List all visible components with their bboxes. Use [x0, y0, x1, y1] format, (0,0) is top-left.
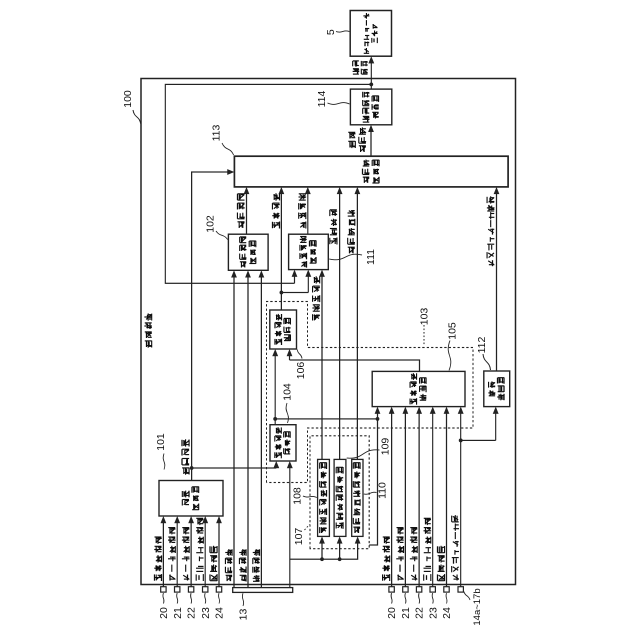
block 109 最大変位取得部: [334, 459, 346, 536]
svg-text:22: 22: [186, 607, 198, 619]
wire アクチュエータ負荷 112 to 113: [496, 192, 498, 371]
block 106 車体特性更新部: [270, 310, 297, 349]
signal label 車体特性: [272, 193, 280, 228]
wires right terminals to block 105: [391, 412, 393, 587]
sensor terminals 20-24,14a-17b right group: [389, 587, 394, 592]
svg-text:5: 5: [325, 29, 337, 35]
wire 105 to 106 feedback: [290, 360, 420, 371]
svg-text:111: 111: [365, 249, 377, 265]
wire 目標値範囲 110 to 113: [356, 192, 358, 459]
wire 現在姿勢 101 to 113 with branch to 104: [192, 172, 229, 481]
sensor terminals 20-24 left group: [161, 587, 166, 592]
wire 車体特性 106 to 113 with branch to 111: [280, 192, 282, 310]
svg-text:105: 105: [446, 322, 458, 340]
block 108 動力源特性取得部: [318, 459, 330, 536]
wires terminals to block 101: [162, 522, 164, 587]
dashed group box 103: [267, 302, 474, 483]
signal label 有効動力: [299, 194, 307, 229]
controller outer box 100 (制御装置): [141, 79, 516, 585]
svg-text:20: 20: [386, 607, 398, 619]
svg-text:21: 21: [172, 607, 184, 619]
svg-text:113: 113: [211, 124, 223, 141]
signal labels right sensor wires: [382, 537, 390, 582]
svg-text:24: 24: [214, 607, 226, 619]
signal label 制御目標値: [348, 132, 355, 148]
wire bar13 to block 104 with branches to 108/109/110: [289, 467, 291, 588]
block 101 姿勢演算部: [159, 481, 223, 517]
wire 最大変位 109 to 113: [339, 192, 341, 459]
block 111 有効動力演算部: [289, 234, 329, 269]
svg-text:102: 102: [204, 215, 216, 233]
svg-text:114: 114: [316, 90, 328, 107]
signal label 動力源特性: [312, 276, 320, 320]
signal label 現在姿勢: [182, 439, 189, 474]
svg-text:106: 106: [295, 362, 307, 380]
svg-text:100: 100: [122, 90, 134, 108]
svg-text:13: 13: [238, 609, 250, 621]
block 104 車体特性取得部: [270, 425, 296, 461]
svg-text:103: 103: [418, 308, 430, 326]
wire 目標軌跡 102 to 113: [246, 192, 248, 234]
wire 操作指令 114 to valve 5 with feedback branch to 111: [370, 62, 372, 89]
svg-text:109: 109: [380, 438, 392, 456]
signal labels left sensor wires: [154, 537, 162, 582]
svg-text:23: 23: [427, 607, 439, 619]
svg-text:20: 20: [158, 607, 170, 619]
block 113 目標値演算部: [234, 156, 508, 187]
wire 104 to 106 with branch to 105: [274, 355, 276, 425]
block 110 目標値範囲取得部: [352, 459, 363, 536]
signal label アクチュエータ負荷: [487, 196, 495, 266]
block 114 操作指令生成部: [350, 89, 391, 125]
block 102 目標軌跡演算部: [228, 234, 268, 270]
wire 動力源特性 108 to 111: [321, 275, 323, 459]
wire group 107 to block 105: [369, 412, 377, 545]
svg-text:24: 24: [441, 607, 453, 619]
wire 制御目標値 113 to 114: [370, 130, 372, 156]
svg-text:108: 108: [292, 487, 304, 505]
block 105 車体特性修正部: [372, 371, 465, 406]
signal label 最大変位: [330, 210, 338, 245]
label 制御装置: [144, 313, 152, 347]
svg-text:107: 107: [293, 528, 305, 546]
svg-text:14a~17b: 14a~17b: [472, 588, 483, 625]
svg-text:23: 23: [200, 607, 212, 619]
svg-text:104: 104: [281, 383, 293, 401]
signal label 目標値範囲: [348, 210, 356, 253]
signal label 目標軌跡: [237, 194, 244, 228]
input device bar 13: [233, 588, 293, 593]
svg-text:22: 22: [414, 607, 426, 619]
wires bar13 to block 102 目標位置/開始位置/通過位置: [233, 276, 235, 588]
svg-text:101: 101: [155, 433, 167, 451]
signal label 操作指令: [353, 60, 360, 74]
svg-text:21: 21: [400, 607, 412, 619]
signal labels 目標位置 開始位置 通過位置: [225, 549, 232, 581]
svg-text:110: 110: [377, 482, 389, 499]
dashed group box 107: [310, 436, 369, 549]
wire 有効動力 111 to 113: [307, 192, 309, 234]
svg-text:112: 112: [476, 336, 488, 353]
wire branch アクチュエータ圧 to block 112: [459, 439, 463, 443]
block 5 コントロールバルブ: [350, 11, 391, 57]
block 112 負荷推定部: [484, 371, 510, 407]
